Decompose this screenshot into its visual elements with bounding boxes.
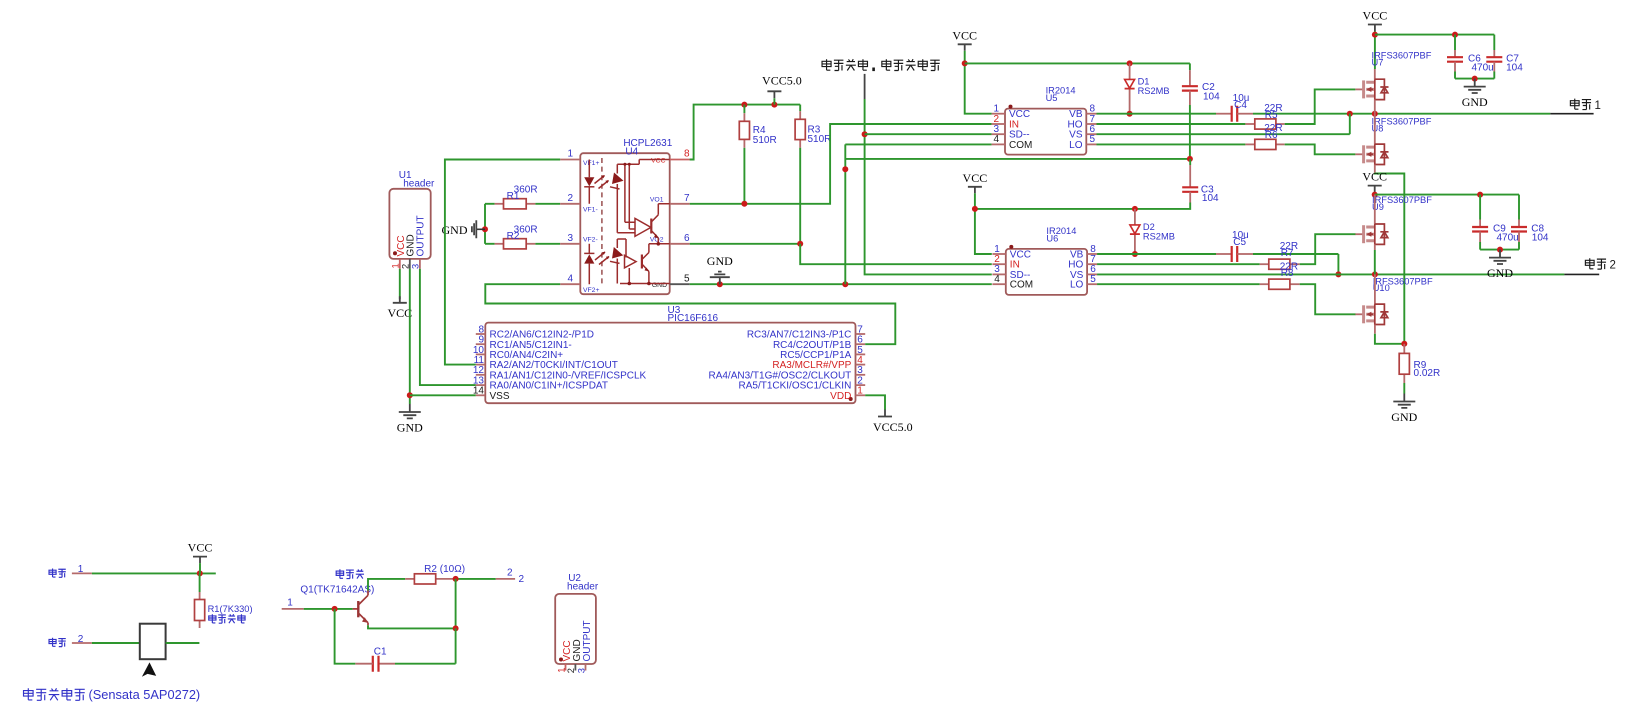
junction shunt top xyxy=(1401,341,1407,347)
svg-text:U7: U7 xyxy=(1372,57,1384,67)
junction emitter node xyxy=(453,625,459,631)
wire VS riser xyxy=(1349,114,1351,135)
svg-text:U8: U8 xyxy=(1372,123,1384,133)
svg-text:4: 4 xyxy=(567,273,573,284)
wire U4 VCC riser to pullup rail xyxy=(690,105,801,160)
wire U5 LO to R6 xyxy=(1097,143,1246,145)
wire output to emitter xyxy=(455,579,457,629)
svg-text:(10Ω): (10Ω) xyxy=(440,564,465,575)
pin 3 of U4 VF2- xyxy=(560,233,598,244)
wire VCC stub bottom xyxy=(199,563,201,573)
pin 7 of U3 RC3 xyxy=(747,324,865,340)
power VCC top right xyxy=(1363,9,1388,32)
pin 7 of U5 HO xyxy=(1068,114,1097,131)
wire OUTPUT to U3 pin13 xyxy=(420,269,476,385)
junction VCC rail U6 xyxy=(972,206,978,212)
connector U1 header xyxy=(389,170,435,259)
svg-text:470u: 470u xyxy=(1497,232,1519,243)
junction varistor top xyxy=(197,570,203,576)
svg-text:R8: R8 xyxy=(1281,268,1294,279)
pin stub brush2 bottom xyxy=(72,642,92,644)
wire GND to C2 C3 junction xyxy=(845,158,1190,160)
wire xyxy=(1493,35,1495,50)
junction D1 bottom on VB xyxy=(1127,111,1133,117)
wire rail to C9 C8 xyxy=(1375,194,1519,196)
wire R2 to output 2 xyxy=(453,578,496,580)
svg-text:8: 8 xyxy=(684,149,690,160)
svg-text:R1(7K330): R1(7K330) xyxy=(208,604,253,614)
svg-text:3: 3 xyxy=(576,668,586,673)
wire VB bootstrap drop pair2 xyxy=(1337,254,1339,274)
svg-text:VF1-: VF1- xyxy=(583,207,598,214)
net stub brush2 xyxy=(1564,273,1599,275)
gate driver U5 IR2014 body xyxy=(1005,86,1086,155)
pin 4 of U5 COM xyxy=(992,134,1033,151)
transistor U7 IRFS3607PBF xyxy=(1372,51,1432,80)
pin 6 of U3 RC4 xyxy=(773,335,865,351)
pin 12 of U3 RA1 xyxy=(473,365,647,381)
wire VCC2 stub xyxy=(1374,192,1376,195)
svg-text:LO: LO xyxy=(1069,140,1083,151)
wire U6 VS / brush2 row xyxy=(1097,273,1564,275)
svg-text:GND: GND xyxy=(397,421,423,435)
svg-text:510R: 510R xyxy=(808,134,832,145)
svg-text:D2: D2 xyxy=(1143,222,1155,232)
pin 6 of U5 VS xyxy=(1069,124,1096,141)
svg-text:D1: D1 xyxy=(1138,76,1150,86)
wire U3 VDD to VCC5.0 xyxy=(865,395,885,409)
wire R6 to U8 gate xyxy=(1285,144,1356,154)
wire C2 bottom to GND row xyxy=(1189,105,1191,159)
junction VB-VS pair2 xyxy=(1335,271,1341,277)
svg-text:U5: U5 xyxy=(1046,93,1058,103)
pin 2 of U4 VF1- xyxy=(560,193,598,214)
resistor R9 0.02R shunt xyxy=(1399,344,1440,383)
wire U9 source to phase2 xyxy=(1374,250,1376,274)
wire U3 RA2 to U4 VF1+ xyxy=(445,160,560,365)
wire xyxy=(1189,63,1191,70)
net label 电刷 brush wire 2 xyxy=(49,634,84,647)
wire U6 LO to R8 xyxy=(1097,283,1260,285)
pin 5 of U3 RC5 xyxy=(780,345,865,361)
wire xyxy=(1189,159,1191,165)
wire to Q1 base xyxy=(304,608,353,610)
pin 3 of U3 RA4 xyxy=(708,365,865,381)
junction GND column xyxy=(842,166,848,172)
wire U5 VS to phase xyxy=(1097,133,1350,135)
power VCC for U6 xyxy=(963,171,988,194)
pin 1 of U5 VCC xyxy=(992,104,1031,121)
wire U5 HO to R5 xyxy=(1097,123,1246,125)
pin 2 of U2 xyxy=(566,664,576,673)
svg-text:VCC: VCC xyxy=(952,28,977,42)
svg-text:4: 4 xyxy=(993,134,999,145)
svg-text:OUTPUT: OUTPUT xyxy=(416,215,427,256)
wire R1-R2 junction column xyxy=(484,204,486,244)
wire C3 bottom rail to U6 VCC xyxy=(975,203,1190,209)
pin 5 of U4 GND xyxy=(652,273,690,289)
junction SD branch xyxy=(862,131,868,137)
wire down to C1 row xyxy=(455,628,457,663)
svg-text:R2: R2 xyxy=(507,231,520,242)
wire to R1 left xyxy=(485,203,495,205)
wire xyxy=(395,663,456,665)
pin 3 of U2 xyxy=(576,664,586,673)
svg-text:1: 1 xyxy=(1595,100,1601,112)
junction C6 top xyxy=(1452,32,1458,38)
svg-text:RS2MB: RS2MB xyxy=(1143,231,1175,241)
pin 5 of U5 LO xyxy=(1069,134,1096,151)
resistor R1 360R xyxy=(495,185,538,209)
capacitor C3 104 xyxy=(1182,159,1219,204)
capacitor C2 104 xyxy=(1182,63,1220,105)
U4 internal amplifier channel 2 xyxy=(625,255,637,268)
svg-text:5: 5 xyxy=(684,273,690,284)
power VCC for U5 xyxy=(952,28,977,51)
pin 8 of U5 VB xyxy=(1069,104,1096,121)
svg-text:COM: COM xyxy=(1010,280,1033,291)
wire VCC rail to C2 xyxy=(965,62,1190,64)
svg-text:COM: COM xyxy=(1009,140,1032,151)
svg-text:7: 7 xyxy=(684,193,690,204)
wire xyxy=(1479,195,1481,220)
pin 8 of U3 RC2 xyxy=(476,324,594,340)
pin 1 of U2 xyxy=(556,664,566,673)
protector arrow mark xyxy=(142,662,156,676)
svg-text:R5: R5 xyxy=(1265,110,1278,121)
svg-text:VCC: VCC xyxy=(963,171,988,185)
resistor R4 510R xyxy=(739,105,776,148)
svg-text:R1: R1 xyxy=(507,191,520,202)
svg-text:0.02R: 0.02R xyxy=(1414,368,1441,379)
svg-text:1: 1 xyxy=(391,263,401,268)
transistor U9 IRFS3607PBF xyxy=(1372,195,1432,224)
wire xyxy=(1518,195,1520,220)
pin 7 of U6 HO xyxy=(1068,254,1097,271)
wire GND row U4 pin5 to U6 COM xyxy=(690,283,992,285)
U4 internal transistor channel 1 xyxy=(649,204,670,246)
power VCC below U1 xyxy=(387,296,412,320)
ground GND left (arrow style) xyxy=(442,220,486,238)
svg-text:1: 1 xyxy=(556,668,566,673)
junction phase node brush1 xyxy=(1372,111,1378,117)
svg-text:VF2-: VF2- xyxy=(583,237,598,244)
wire xyxy=(1479,242,1481,250)
junction VS bootstrap pair1 xyxy=(1347,111,1353,117)
U4 internal LED channel 1 xyxy=(584,160,594,204)
pin 1 of U4 VF1+ xyxy=(560,149,599,167)
wire U10 source to shunt node xyxy=(1375,334,1404,344)
wire VCC rail to C6 C7 xyxy=(1375,34,1494,36)
pin 10 of U3 RC0 xyxy=(473,345,563,361)
pin 2 of U5 IN xyxy=(992,114,1019,131)
svg-text:U6: U6 xyxy=(1046,233,1058,243)
junction D2 top xyxy=(1132,206,1138,212)
net label 电刷1 xyxy=(1570,99,1601,112)
svg-text:VCC: VCC xyxy=(1362,170,1387,184)
resistor R2 10ohm xyxy=(405,564,465,584)
capacitor C7 104 xyxy=(1486,35,1523,79)
pin 6 of U6 VS xyxy=(1070,264,1097,281)
wire VCC to U6 pin1 xyxy=(975,193,992,254)
label 压敏电阻 xyxy=(209,614,245,623)
svg-text:104: 104 xyxy=(1202,193,1219,204)
pin 1 of U1 xyxy=(391,259,401,269)
motor protector body xyxy=(140,624,166,660)
svg-text:5: 5 xyxy=(1090,134,1096,145)
capacitor C8 104 xyxy=(1511,195,1549,250)
diode D1 RS2MB xyxy=(1125,63,1170,113)
U4 internal LED channel 2 xyxy=(584,244,594,284)
svg-text:5: 5 xyxy=(1090,274,1096,285)
svg-text:VCC: VCC xyxy=(1363,9,1388,23)
wire U6 VB row to C5 xyxy=(1097,253,1338,255)
ground below R9 xyxy=(1391,394,1417,425)
svg-text:3: 3 xyxy=(567,233,573,244)
svg-text:4: 4 xyxy=(994,274,1000,285)
svg-text:header: header xyxy=(567,582,599,593)
wire SD branch to U5 SD xyxy=(865,133,992,135)
wire VCC to U7 drain xyxy=(1374,31,1376,69)
svg-text:470u: 470u xyxy=(1472,63,1494,74)
svg-text:2: 2 xyxy=(519,574,525,585)
svg-text:LO: LO xyxy=(1070,280,1084,291)
junction cap gnd 1 xyxy=(1472,76,1478,82)
wire U8 source to shunt xyxy=(1375,173,1405,344)
pin 4 of U4 VF2+ xyxy=(560,273,599,294)
svg-text:GND: GND xyxy=(707,254,733,268)
svg-text:VF1+: VF1+ xyxy=(583,160,599,167)
caption 电机保护器(Sensata 5AP0272) xyxy=(24,687,201,702)
resistor R2 360R xyxy=(495,225,538,249)
wire R2 to U4 pin3 xyxy=(535,243,560,245)
svg-text:R2: R2 xyxy=(424,564,437,575)
resistor R3 510R xyxy=(795,105,831,148)
svg-text:GND: GND xyxy=(1487,266,1513,280)
mosfet U10 symbol xyxy=(1355,304,1388,324)
wire xyxy=(199,573,201,592)
pin 4 of U3 RA3 xyxy=(772,355,865,371)
junction C2 C3 GND xyxy=(1187,156,1193,162)
transistor U8 IRFS3607PBF xyxy=(1372,114,1432,144)
ground below C9 C8 xyxy=(1487,250,1513,281)
junction C9 top xyxy=(1477,192,1483,198)
gate driver U6 IR2014 body xyxy=(1006,226,1087,295)
U4 internal amplifier channel 1 xyxy=(635,218,651,236)
pin 1 of U6 VCC xyxy=(992,244,1031,261)
junction base C1 xyxy=(332,606,338,612)
junction D1 top xyxy=(1127,60,1133,66)
U4 internal light arrows channel 1 xyxy=(595,175,609,188)
svg-text:VCC: VCC xyxy=(651,157,665,164)
ground below U1 xyxy=(397,404,423,435)
svg-text:2: 2 xyxy=(401,264,411,269)
wire R5 to U7 gate xyxy=(1285,89,1356,124)
U4 internal light arrows channel 2 xyxy=(595,252,609,265)
svg-text:C4: C4 xyxy=(1234,100,1247,111)
wire U5 VB row to brush1 xyxy=(1097,113,1551,115)
ground below C6 C7 xyxy=(1462,79,1488,110)
junction R1R2 gnd xyxy=(482,226,488,232)
U4 internal isolation dashed line xyxy=(601,158,603,286)
wire xyxy=(743,105,745,114)
junction GND column bottom xyxy=(842,281,848,287)
svg-text:104: 104 xyxy=(1203,91,1220,102)
pin 3 of U1 xyxy=(411,259,421,269)
svg-text:U4: U4 xyxy=(625,146,638,157)
wire R4 to VO1 row xyxy=(743,148,745,204)
svg-text:VCC5.0: VCC5.0 xyxy=(762,73,802,87)
wire GND column xyxy=(844,144,846,284)
wire U1 pin1 to VCC xyxy=(399,269,401,299)
connector U2 header xyxy=(555,573,599,664)
pin 2 of U6 IN xyxy=(992,254,1019,271)
svg-text:RS2MB: RS2MB xyxy=(1138,86,1170,96)
U4 internal bottom rail xyxy=(620,268,670,285)
junction R4 bottom xyxy=(741,201,747,207)
wire U1 pin2 / VSS to GND xyxy=(409,269,411,404)
wire VCC to U5 pin1 xyxy=(965,51,992,114)
svg-text:U9: U9 xyxy=(1372,202,1384,212)
wire VSS to U3 pin14 xyxy=(410,394,476,396)
wire U4 VO2 row xyxy=(690,243,801,245)
pin 9 of U3 RC1 xyxy=(476,335,572,351)
wire R7 to U9 gate xyxy=(1300,234,1356,264)
resistor R7 22R xyxy=(1260,241,1300,269)
wire R8 to U10 gate xyxy=(1300,284,1356,314)
svg-text:VCC: VCC xyxy=(387,306,412,320)
wire GND to U5 COM xyxy=(845,143,991,145)
svg-text:PIC16F616: PIC16F616 xyxy=(668,313,719,324)
wire Q1 emitter row xyxy=(368,625,456,628)
svg-text:header: header xyxy=(403,179,435,190)
svg-text:510R: 510R xyxy=(753,135,777,146)
wire Q1 collector to R2 xyxy=(368,579,405,591)
power VCC5.0 below U3 xyxy=(873,410,913,435)
junction R4 top xyxy=(741,102,747,108)
resistor R5 22R xyxy=(1245,103,1284,129)
annotation text 关断引脚，低电平有效 xyxy=(822,59,867,70)
wire VO2 jog to U6 IN xyxy=(800,244,992,264)
pin stub output 2 xyxy=(496,567,525,585)
wire to R2 left xyxy=(485,243,495,245)
mosfet U8 symbol xyxy=(1355,144,1388,164)
svg-text:VCC5.0: VCC5.0 xyxy=(873,420,913,434)
power VCC bottom left xyxy=(188,541,213,564)
svg-text:1: 1 xyxy=(567,149,573,160)
svg-text:6: 6 xyxy=(684,233,690,244)
svg-text:3: 3 xyxy=(411,264,421,269)
transistor Q1 TK71642AS xyxy=(353,591,369,626)
U4 internal top rail and bias xyxy=(617,160,669,230)
junction phase node brush2 xyxy=(1372,271,1378,277)
pin 1 of U3 VDD xyxy=(830,386,865,402)
wire R1 to U4 pin2 xyxy=(535,203,560,205)
svg-text:14: 14 xyxy=(473,386,485,397)
pin 7 of U4 VO1 xyxy=(650,193,690,204)
junction VSS node xyxy=(407,392,413,398)
mosfet U7 symbol xyxy=(1355,79,1388,99)
junction R2 output xyxy=(453,576,459,582)
junction VCC cap rail 1 xyxy=(1372,32,1378,38)
wire U4 VO1 to U5 IN xyxy=(690,124,992,204)
wire brush2 to protector xyxy=(92,642,140,644)
pin 2 of U1 xyxy=(401,259,411,269)
label 三极管 xyxy=(336,569,364,578)
wire xyxy=(1454,72,1456,79)
pin 3 of U5 SD-- xyxy=(992,124,1030,141)
svg-text:GND: GND xyxy=(1462,95,1488,109)
junction cap gnd 2 xyxy=(1497,247,1503,253)
mosfet U9 symbol xyxy=(1355,224,1388,244)
microcontroller U3 PIC16F616 body xyxy=(485,305,855,403)
optocoupler U4 HCPL2631 body xyxy=(580,138,672,294)
svg-text:1: 1 xyxy=(287,598,293,609)
net label 电刷 brush wire 1 xyxy=(49,564,84,577)
pin 8 of U6 VB xyxy=(1070,244,1097,261)
svg-text:VCC: VCC xyxy=(188,541,213,555)
ground above GND row xyxy=(707,254,733,284)
wire brush1 to varistor node xyxy=(92,572,216,574)
wire U6 HO to R7 xyxy=(1097,263,1260,265)
svg-text:R7: R7 xyxy=(1281,248,1294,259)
wire xyxy=(1454,35,1456,50)
wire xyxy=(1493,72,1495,79)
pin 14 of U3 VSS xyxy=(473,386,510,402)
capacitor C6 470u xyxy=(1447,35,1494,79)
svg-text:2: 2 xyxy=(566,668,576,673)
pin stub base input 1 xyxy=(282,598,304,609)
capacitor C1 xyxy=(355,647,455,672)
svg-text:VO1: VO1 xyxy=(650,197,664,204)
wire R9 to GND xyxy=(1403,383,1405,394)
pin 5 of U6 LO xyxy=(1070,274,1097,291)
U4 internal photodiode channel 2 xyxy=(610,239,626,284)
svg-text:2: 2 xyxy=(1610,259,1616,271)
svg-text:104: 104 xyxy=(1506,63,1523,74)
svg-text:C1: C1 xyxy=(374,647,387,658)
pin 6 of U4 VO2 xyxy=(650,233,690,244)
junction VCC rail U5 xyxy=(962,60,968,66)
junction R3 bottom xyxy=(797,241,803,247)
pin 13 of U3 RA0 xyxy=(473,376,608,392)
diode D2 RS2MB xyxy=(1130,209,1175,254)
svg-text:VSS: VSS xyxy=(490,391,510,402)
net stub brush1 xyxy=(1550,113,1593,115)
wire R3 to VO2 row xyxy=(799,148,801,244)
wire U3 RC4 to U4 VF2+ xyxy=(485,284,895,344)
svg-text:2: 2 xyxy=(507,567,513,578)
power VCC mid right xyxy=(1362,170,1387,193)
pin 8 of U4 VCC xyxy=(651,149,693,165)
power VCC5.0 top xyxy=(762,73,802,98)
junction U9 drain rail xyxy=(1372,192,1378,198)
U4 internal transistor channel 2 xyxy=(642,244,649,284)
annotation leader line xyxy=(864,74,866,99)
junction VCC5.0 stub xyxy=(771,102,777,108)
svg-text:2: 2 xyxy=(567,193,573,204)
pin stub brush1 bottom xyxy=(72,572,92,574)
svg-text:1: 1 xyxy=(857,386,863,397)
pin 4 of U6 COM xyxy=(992,274,1033,291)
wire C9 C8 bottom rail xyxy=(1480,249,1519,251)
wire xyxy=(1518,242,1520,250)
net label 电刷2 xyxy=(1585,258,1616,271)
junction GND symbol xyxy=(717,281,723,287)
pin 11 of U3 RA2 xyxy=(474,355,618,371)
junction D2 bottom on VB xyxy=(1132,251,1138,257)
svg-text:R6: R6 xyxy=(1265,130,1278,141)
